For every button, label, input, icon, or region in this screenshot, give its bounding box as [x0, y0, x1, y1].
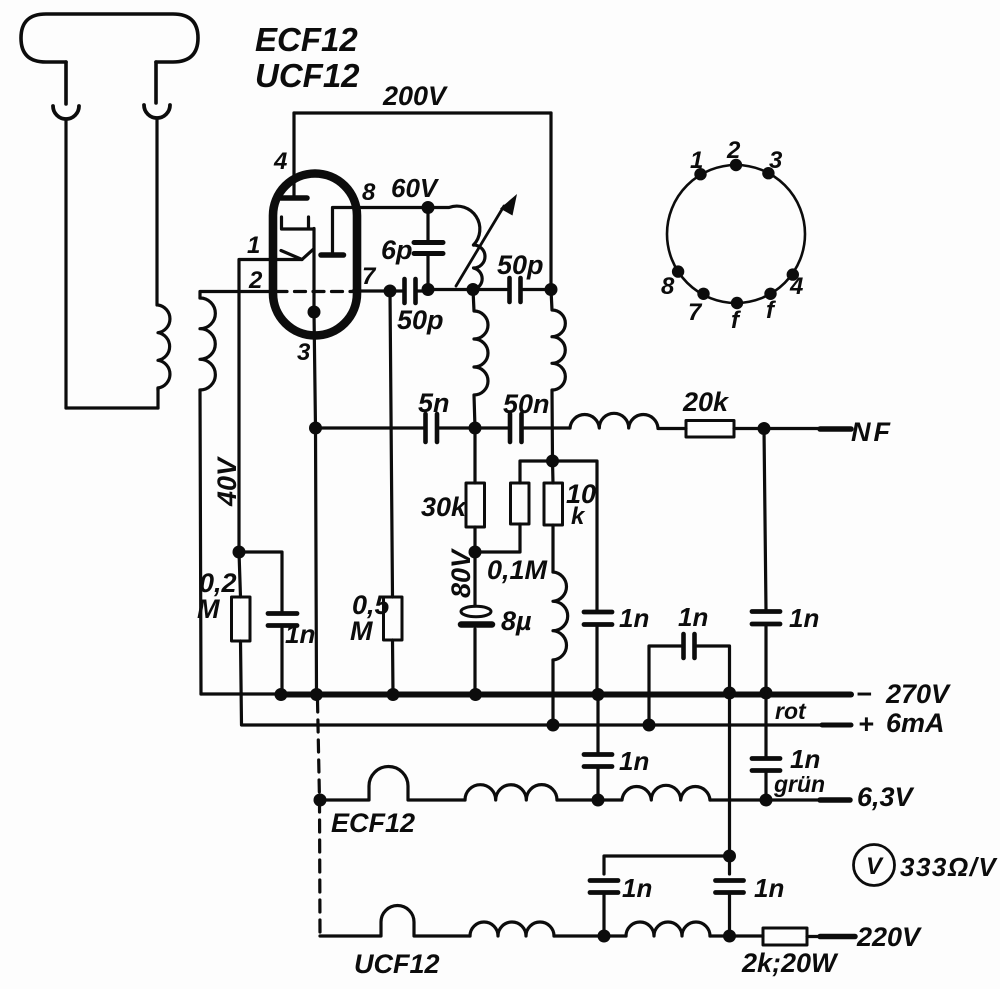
wire 0.1M bottom to 80V: [475, 524, 520, 552]
svg-text:1n: 1n: [619, 603, 649, 633]
svg-text:200V: 200V: [382, 81, 448, 111]
wire NF terminal: [764, 427, 820, 430]
svg-text:30k: 30k: [421, 492, 468, 522]
svg-text:8: 8: [362, 179, 376, 206]
svg-text:8: 8: [661, 273, 675, 300]
socket pin dots: [672, 159, 799, 309]
svg-text:M: M: [197, 594, 220, 624]
junction dot pin7 node: [384, 285, 397, 298]
svg-text:333Ω/V: 333Ω/V: [900, 852, 998, 882]
svg-text:220V: 220V: [856, 922, 922, 952]
junction dot NF: [758, 422, 771, 435]
svg-text:+: +: [858, 709, 874, 739]
wire 10k coil to 6mA line: [551, 660, 554, 725]
tube pentode anode bar: [321, 252, 344, 258]
tube ECF12 envelope: [273, 174, 357, 336]
coil L1 antenna primary: [158, 305, 170, 390]
wire bottom bridge column: [728, 693, 731, 936]
svg-text:NF: NF: [851, 417, 893, 447]
tube grid-1 hook electrode: [281, 250, 313, 260]
svg-text:grün: grün: [773, 771, 825, 797]
tube cathode line pin 3: [312, 229, 315, 313]
node 60V junction dot: [422, 201, 435, 214]
wire pin 2 solid left part: [238, 290, 274, 293]
coil L2 antenna secondary: [200, 298, 215, 390]
wire pin 3 down: [314, 312, 317, 694]
resistor 2k 20W: [763, 928, 807, 945]
coil heater UCF 1: [470, 922, 554, 936]
wire 200V rail right drop: [549, 113, 552, 290]
capacitor 5n: [426, 414, 438, 442]
voltmeter circle: [854, 845, 895, 886]
heater row ECF12: [314, 794, 327, 807]
svg-text:−: −: [856, 679, 872, 709]
svg-text:2k;20W: 2k;20W: [741, 948, 839, 978]
antenna plug cup left: [53, 106, 79, 119]
svg-text:2: 2: [726, 137, 741, 164]
wire pin 4 anode to 200V rail: [292, 113, 295, 198]
svg-text:1n: 1n: [789, 603, 819, 633]
capacitor 1n at 283: [239, 552, 282, 694]
wire NF column 1n: [764, 429, 766, 694]
wire coil L1 bottom: [156, 388, 159, 408]
svg-text:1n: 1n: [285, 619, 315, 649]
svg-text:50p: 50p: [397, 305, 444, 335]
capacitor 1n at 597: [584, 612, 612, 625]
junction dot variable coil bottom: [467, 283, 480, 296]
bus -270V thin left part: [201, 692, 281, 695]
svg-text:1: 1: [247, 232, 260, 259]
capacitor 6p: [426, 208, 429, 290]
capacitor 50n: [475, 426, 570, 429]
junction dot 10k top row: [546, 455, 559, 468]
svg-text:UCF12: UCF12: [255, 57, 360, 94]
svg-text:V: V: [866, 853, 884, 880]
coil heater filter 1: [465, 785, 557, 800]
variable inductor coil: [474, 245, 486, 290]
coil IF primary below variable: [473, 290, 488, 429]
capacitor 1n gruen: [764, 693, 767, 800]
svg-text:7: 7: [362, 263, 377, 290]
wire antenna left down: [64, 119, 67, 408]
tube triode anode plate: [281, 195, 307, 201]
tube grid bracket: [282, 217, 314, 229]
capacitor 1n bottom left: [590, 881, 618, 893]
tube socket circle: [667, 165, 805, 303]
coil heater UCF 2: [626, 922, 710, 936]
node 80V junction dot: [469, 546, 482, 559]
svg-text:8µ: 8µ: [501, 606, 532, 636]
resistor 0.1M: [511, 483, 530, 524]
svg-text:80V: 80V: [446, 548, 476, 598]
junction dot 6p bottom: [422, 283, 435, 296]
svg-text:M: M: [350, 616, 373, 646]
svg-text:50n: 50n: [503, 389, 550, 419]
junction dot 30k top: [469, 422, 482, 435]
wire oscillator row: [428, 288, 473, 291]
svg-text:k: k: [571, 503, 586, 530]
wire bridge top row: [604, 856, 730, 936]
svg-text:ECF12: ECF12: [331, 808, 415, 838]
antenna plug cup right: [144, 105, 170, 118]
svg-text:UCF12: UCF12: [354, 949, 440, 979]
svg-text:f: f: [731, 307, 741, 334]
resistor 0.5M: [390, 291, 393, 694]
svg-text:270V: 270V: [885, 679, 951, 709]
svg-text:1n: 1n: [622, 873, 652, 903]
wire antenna right down to coil: [155, 118, 158, 305]
resistor 0.2M: [233, 546, 246, 559]
svg-text:3: 3: [769, 147, 783, 174]
resistor 20k: [658, 427, 764, 430]
svg-text:6mA: 6mA: [886, 708, 945, 738]
svg-text:0,1M: 0,1M: [487, 555, 548, 585]
bus -270V thick: [281, 692, 851, 698]
coil oscillator secondary: [551, 290, 565, 462]
svg-text:2: 2: [248, 267, 263, 294]
svg-text:1: 1: [690, 147, 703, 174]
variable inductor top bend: [428, 206, 480, 245]
capacitor 1n bridge between rails: [649, 646, 730, 725]
coil below 10k: [553, 572, 568, 660]
junction dot detector row left: [309, 422, 322, 435]
resistor 10k: [551, 461, 555, 572]
bus junction dots: [275, 688, 288, 701]
svg-text:7: 7: [688, 299, 703, 326]
wire 30k column: [473, 428, 476, 551]
svg-text:f: f: [766, 297, 776, 324]
wire pin 2 to pin 7 dashed inside tube: [276, 290, 353, 293]
wire detector row y428: [316, 426, 425, 429]
6mA junction dots: [547, 719, 560, 732]
capacitor 1n at NF column: [752, 612, 780, 625]
wire L2 bottom to bus: [200, 390, 201, 694]
svg-text:1n: 1n: [619, 746, 649, 776]
wire pin 8 pentode anode to 60V node: [333, 208, 429, 254]
wire antenna bottom: [66, 406, 158, 409]
resistor 30k: [466, 483, 485, 527]
svg-text:1n: 1n: [678, 602, 708, 632]
svg-text:1n: 1n: [790, 744, 820, 774]
junction dot osc rail: [545, 283, 558, 296]
capacitor 50p oscillator coupling: [473, 288, 551, 291]
tube cathode junction dot: [308, 306, 321, 319]
coil NF choke: [570, 413, 658, 428]
svg-text:6,3V: 6,3V: [857, 782, 915, 812]
wire pin 1: [239, 260, 302, 553]
wire pin 7 to grid cap row: [353, 289, 390, 292]
variable inductor arrow: [456, 206, 504, 286]
svg-text:5n: 5n: [418, 388, 450, 418]
svg-text:4: 4: [273, 148, 287, 175]
svg-text:4: 4: [789, 273, 803, 300]
svg-text:50p: 50p: [497, 250, 544, 280]
wire 6mA thick end: [822, 723, 851, 728]
svg-text:1n: 1n: [754, 873, 784, 903]
coil heater filter 2: [598, 785, 710, 800]
heater row UCF12: [320, 906, 470, 937]
svg-text:3: 3: [297, 339, 311, 366]
svg-text:40V: 40V: [212, 456, 242, 507]
capacitor 1n heater ECF: [596, 695, 599, 801]
200V rail: [294, 111, 551, 114]
svg-text:60V: 60V: [391, 173, 440, 203]
capacitor 1n bottom right: [716, 881, 744, 893]
loop antenna frame: [21, 14, 198, 104]
wire L2 top to grid node: [200, 292, 238, 299]
wire pin3 dashed below bus: [318, 700, 321, 936]
svg-text:20k: 20k: [682, 387, 730, 417]
capacitor 8u electrolytic: [473, 552, 476, 694]
svg-text:ECF12: ECF12: [255, 21, 358, 58]
svg-text:rot: rot: [775, 698, 807, 724]
wire 0.1M top row y461: [520, 461, 597, 610]
capacitor 50p grid: [390, 289, 428, 292]
svg-text:6p: 6p: [381, 235, 413, 265]
